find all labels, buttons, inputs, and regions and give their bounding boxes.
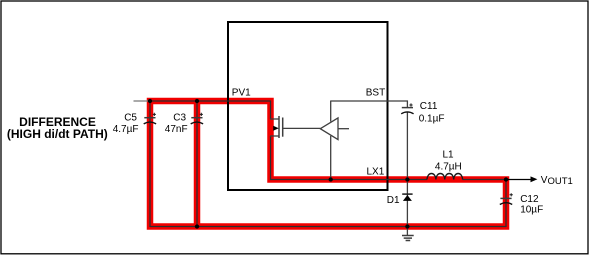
svg-text:4.7µH: 4.7µH xyxy=(435,161,462,172)
svg-text:4.7µF: 4.7µF xyxy=(113,124,139,135)
capacitor C5 plates xyxy=(144,117,155,119)
wire: C11 lower lead xyxy=(406,112,408,181)
wire: source lead xyxy=(270,136,272,180)
junction node: C3 top xyxy=(195,99,199,103)
capacitor C5 plus mark xyxy=(153,113,156,116)
transistor Q1 gate bar xyxy=(282,118,284,137)
wire: VOUT1 branch xyxy=(506,179,532,181)
wire: gate lead xyxy=(283,127,321,129)
wire: C12 branch xyxy=(505,180,507,228)
capacitor C12 plus mark xyxy=(510,193,513,196)
svg-text:0.1µF: 0.1µF xyxy=(419,113,445,124)
junction node: driver to LX1 xyxy=(329,177,333,181)
transistor Q1 body arrow xyxy=(273,126,279,131)
svg-text:C12: C12 xyxy=(520,194,539,205)
capacitor C3 plates xyxy=(191,117,202,119)
wire: LX1 net xyxy=(270,179,506,181)
svg-text:L1: L1 xyxy=(443,150,455,161)
IC U1 box xyxy=(228,22,388,190)
junction node: input/C5 xyxy=(148,99,152,103)
diode D1 triangle xyxy=(403,195,412,201)
svg-text:PV1: PV1 xyxy=(232,88,251,99)
capacitor C11 plates xyxy=(402,107,413,109)
svg-text:10µF: 10µF xyxy=(520,205,543,216)
gate driver triangle U2 xyxy=(320,118,338,140)
wire: drain lead xyxy=(270,101,272,120)
diode D1 cathode bar xyxy=(402,193,412,195)
svg-text:D1: D1 xyxy=(387,195,400,206)
gate driver lower lead xyxy=(330,136,332,180)
gate driver input stub xyxy=(338,128,349,130)
wire: input stub xyxy=(134,100,151,102)
svg-text:C3: C3 xyxy=(173,112,186,123)
capacitor C11 plus mark xyxy=(409,103,412,106)
wire: D1 leads xyxy=(406,180,408,236)
junction node: C3 bottom xyxy=(195,224,199,228)
wire: PV1 net xyxy=(149,100,271,102)
ground symbol xyxy=(402,236,414,241)
wire: BST net xyxy=(331,101,408,107)
svg-text:LX1: LX1 xyxy=(367,167,385,178)
arrowhead VOUT1 xyxy=(531,176,538,182)
svg-text:(HIGH di/dt PATH): (HIGH di/dt PATH) xyxy=(7,127,108,141)
gate driver upper lead xyxy=(330,101,332,122)
svg-text:C11: C11 xyxy=(420,101,438,112)
capacitor C3 plus mark xyxy=(200,113,203,116)
transistor Q1 channel bar xyxy=(278,116,280,138)
inductor L1 winding xyxy=(427,173,463,179)
red high di/dt current loop xyxy=(150,101,506,227)
junction node: D1/C11 at LX1 xyxy=(405,177,409,181)
wire: C3 branch xyxy=(196,101,198,227)
wire: ground return bottom xyxy=(150,226,506,228)
svg-text:VOUT1: VOUT1 xyxy=(541,175,573,187)
transistor Q1 source stub xyxy=(270,135,279,137)
capacitor C12 plates xyxy=(500,197,511,199)
transistor Q1 drain stub xyxy=(270,118,279,120)
junction node: D1 at return xyxy=(405,224,409,228)
red C3 branch segment xyxy=(194,101,201,227)
svg-text:BST: BST xyxy=(366,88,385,99)
svg-text:C5: C5 xyxy=(124,112,137,123)
svg-text:47nF: 47nF xyxy=(165,124,188,135)
junction node: VOUT corner xyxy=(504,177,508,181)
wire: C5 branch xyxy=(149,101,151,227)
